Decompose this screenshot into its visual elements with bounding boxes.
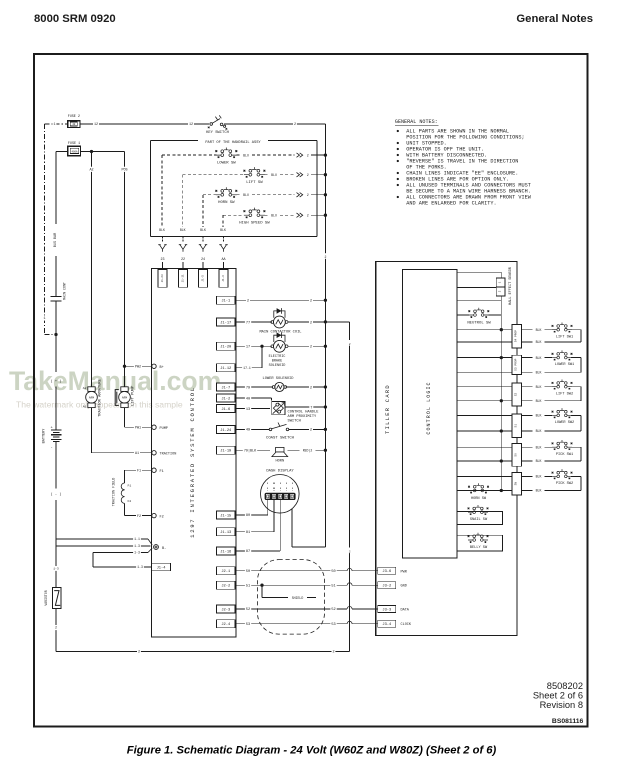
node PW2 junction — [123, 365, 126, 368]
bus wire 2 to dash display — [292, 546, 325, 548]
connector J1-16 — [217, 547, 236, 555]
wire LOWER SW1 loop — [571, 357, 581, 359]
svg-text:BLK: BLK — [200, 228, 206, 232]
connector J1-24 — [217, 425, 236, 433]
wire A2 vertical — [91, 152, 93, 387]
svg-text:BLK: BLK — [536, 399, 542, 403]
connector J3-4 — [378, 620, 396, 627]
svg-text:2: 2 — [332, 651, 334, 655]
svg-text:50: 50 — [246, 570, 250, 574]
svg-text:1-1: 1-1 — [134, 537, 140, 541]
svg-text:ARM: ARM — [89, 396, 94, 399]
wire battery minus — [55, 442, 57, 489]
svg-text:TRACTION ARMATURE: TRACTION ARMATURE — [99, 378, 103, 416]
terminal B+ — [152, 364, 156, 368]
node tiller bus S3 PROP — [500, 356, 503, 359]
svg-text:J1-7: J1-7 — [221, 386, 230, 390]
svg-text:2: 2 — [310, 346, 312, 350]
svg-text:1297 INTEGRATED SYSTEM CONTROL: 1297 INTEGRATED SYSTEM CONTROL — [189, 386, 196, 538]
switch LIFT SW2 — [552, 379, 573, 389]
wire 81 dash to J1-13 — [273, 500, 275, 532]
svg-text:BLU: BLU — [243, 153, 249, 157]
svg-text:-: - — [50, 446, 52, 450]
wire 2 branch right — [325, 321, 349, 323]
svg-text:2: 2 — [324, 255, 326, 259]
fuse F2 — [68, 121, 80, 128]
wire BLK top PICK SW2 — [521, 475, 552, 477]
lead into connector 22 — [182, 262, 184, 270]
svg-text:2: 2 — [307, 213, 309, 217]
lead into connector AA — [223, 262, 225, 270]
lower solenoid L3 — [272, 382, 287, 391]
handrail assy box PART OF THE HANDRAIL ASSY — [151, 140, 199, 142]
harness arrow LOWER SW — [297, 153, 303, 157]
wire BLU from HORN SW — [236, 194, 240, 196]
svg-text:KEY SWITCH: KEY SWITCH — [206, 131, 229, 135]
svg-text:BLK: BLK — [536, 489, 542, 493]
svg-text:TRACTION: TRACTION — [160, 453, 177, 457]
fuse F1 — [68, 146, 81, 156]
svg-text:PW1: PW1 — [135, 426, 141, 430]
svg-text:HORN SW: HORN SW — [471, 497, 487, 501]
node 17 junction — [260, 345, 263, 348]
svg-text:1: 1 — [43, 317, 45, 321]
svg-text:J1-11: J1-11 — [181, 274, 184, 282]
svg-text:79: 79 — [246, 386, 250, 390]
wire 40 — [235, 397, 272, 399]
svg-text:General Notes: General Notes — [516, 13, 593, 25]
wire 52 J2-3 to J3-3 — [235, 608, 347, 610]
svg-text:J1-9: J1-9 — [222, 275, 225, 282]
svg-text:F1: F1 — [160, 470, 164, 474]
connector J2-2 — [217, 581, 236, 589]
svg-text:LOWER SW2: LOWER SW2 — [555, 421, 574, 425]
svg-text:J1-2: J1-2 — [221, 397, 230, 401]
resistor S3 PROP — [512, 355, 521, 374]
switch LIFT SW — [244, 167, 266, 177]
wire F2 field — [124, 503, 126, 515]
svg-text:F1: F1 — [137, 469, 141, 473]
wires control logic to S1 — [457, 414, 512, 416]
switch HORN SW — [215, 187, 237, 197]
wires control logic to S3 PROP — [457, 357, 512, 359]
node bus row LIFT SW — [324, 173, 327, 176]
dash display pin 4 — [285, 483, 287, 486]
harness arrow HIGH SPEED SW — [297, 213, 303, 217]
wire 7 prox to bus — [285, 406, 325, 408]
svg-text:ARM PROXIMITY: ARM PROXIMITY — [288, 415, 318, 419]
svg-text:2: 2 — [55, 626, 57, 630]
wire 2 brake to bus — [288, 345, 325, 347]
node prox bus — [324, 405, 327, 408]
svg-text:12: 12 — [189, 123, 193, 127]
handrail blk wire 3 vertical — [202, 195, 204, 227]
svg-text:40: 40 — [72, 123, 76, 126]
node tiller bus S0 — [500, 459, 503, 462]
svg-text:2: 2 — [307, 153, 309, 157]
handrail blk wire 4 vertical — [222, 215, 224, 227]
wire fuse 1 to POS corner — [80, 151, 125, 153]
svg-text:BLK: BLK — [220, 228, 226, 232]
svg-text:A1: A1 — [83, 405, 87, 409]
svg-text:1-3: 1-3 — [137, 565, 143, 569]
wire RED|2 horn to bus — [288, 449, 326, 451]
terminal B- — [154, 545, 159, 550]
node main contactor bus — [324, 320, 327, 323]
svg-text:22: 22 — [181, 258, 185, 262]
snail switch box — [457, 511, 502, 524]
svg-text:50: 50 — [331, 570, 335, 574]
svg-text:BLK: BLK — [536, 356, 542, 360]
node horn bus — [324, 449, 327, 452]
wire 53 J2-4 to J3-4 — [235, 623, 347, 625]
resistor SN — [512, 472, 521, 495]
wire bus bar to fuse 1 — [56, 151, 68, 153]
wire 1 chain horizontal to fuse 2 — [45, 123, 68, 125]
wire 80 dash to J1-15 — [267, 500, 269, 515]
connector J3-2 — [378, 582, 396, 589]
handrail lead 23 — [162, 237, 164, 244]
dash display connector bar — [265, 493, 296, 500]
svg-text:13: 13 — [246, 408, 250, 412]
wire F1 field — [125, 469, 152, 471]
handrail lead AA — [223, 237, 225, 244]
node coast bus — [324, 428, 327, 431]
svg-text:BS081116: BS081116 — [552, 718, 584, 725]
wire BLK top LIFT SW1 — [521, 329, 552, 331]
svg-text:PICK SW2: PICK SW2 — [556, 482, 573, 486]
belly switch BELLY SW — [468, 533, 489, 543]
svg-text:J1-13: J1-13 — [220, 531, 231, 535]
handrail lead 22 — [182, 237, 184, 244]
svg-text:J1-6: J1-6 — [221, 408, 230, 412]
svg-text:S3 PROP: S3 PROP — [515, 358, 518, 370]
wire plus to battery — [55, 387, 57, 431]
main contactor tips MAIN CONT — [51, 295, 62, 297]
wire BLU from LOWER SW — [236, 154, 240, 156]
dash display gauge — [261, 475, 300, 514]
svg-text:TRACTION FIELD: TRACTION FIELD — [113, 478, 117, 507]
node A2 junction — [90, 150, 93, 153]
wire to varistor — [55, 546, 57, 587]
wires control logic to S2 — [457, 386, 512, 388]
neutral switch NEUTROL SW — [457, 314, 469, 316]
svg-text:CLOCK: CLOCK — [401, 623, 412, 627]
svg-text:51: 51 — [246, 585, 250, 589]
svg-text:POS: POS — [121, 169, 127, 173]
svg-text:A1: A1 — [135, 452, 139, 456]
connector J3-6 — [378, 567, 396, 574]
svg-text:HORN: HORN — [275, 460, 284, 464]
svg-text:PUMP: PUMP — [160, 427, 168, 431]
switch PICK SW2 — [552, 469, 573, 479]
wire LIFT SW1 loop — [571, 329, 581, 331]
wire 2 J1-1 to bus — [235, 299, 325, 301]
svg-text:SN: SN — [515, 482, 518, 486]
handrail lead 24 — [202, 237, 204, 244]
svg-text:2: 2 — [310, 429, 312, 433]
node solenoid bus — [324, 385, 327, 388]
wire LIFT SW2 loop — [571, 386, 581, 388]
svg-text:LOWER SW: LOWER SW — [217, 161, 236, 165]
wire 2 coast to bus — [289, 428, 325, 430]
svg-text:1-3: 1-3 — [53, 567, 59, 571]
wire 1-3 J1-4 loop to B- — [93, 552, 148, 554]
svg-text:52: 52 — [331, 608, 335, 612]
switch LOWER SW2 — [552, 408, 573, 418]
shield dashed capsule — [258, 560, 325, 635]
wire PW1 pump to PUMP terminal — [124, 408, 126, 428]
wire J1-4 loop — [92, 553, 94, 568]
svg-text:Revision 8: Revision 8 — [540, 700, 583, 710]
svg-text:F1: F1 — [128, 484, 132, 488]
svg-text:SHIELD: SHIELD — [292, 596, 304, 600]
svg-text:J1-17: J1-17 — [220, 321, 231, 325]
arrow fork 24 — [199, 245, 207, 252]
wire POS vertical — [124, 152, 126, 387]
svg-text:BLU: BLU — [271, 213, 277, 217]
wires control logic to SN — [457, 475, 512, 477]
connector J1-19 — [217, 446, 236, 454]
svg-text:BELLY SW: BELLY SW — [470, 546, 488, 550]
wire 2 coil to bus — [288, 321, 325, 323]
wire 1-1 battery to B- — [56, 538, 148, 540]
svg-text:CONTROL HANDLE: CONTROL HANDLE — [288, 410, 320, 414]
svg-text:77: 77 — [246, 321, 250, 325]
svg-text:8000 SRM 0920: 8000 SRM 0920 — [34, 13, 116, 25]
wire varistor to bottom bus — [55, 609, 57, 652]
svg-text:B-: B- — [162, 547, 166, 551]
svg-text:J1-24: J1-24 — [220, 429, 232, 433]
wire BLK top LIFT SW2 — [521, 386, 552, 388]
svg-text:HIGH SPEED SW: HIGH SPEED SW — [239, 222, 270, 226]
svg-text:12: 12 — [94, 123, 98, 127]
prox switch control handle arm — [272, 402, 285, 415]
svg-text:J3-2: J3-2 — [382, 585, 391, 589]
svg-text:J1-12: J1-12 — [220, 367, 231, 371]
connector J1-23 — [158, 270, 167, 288]
node tiller bus S1 — [500, 429, 503, 432]
wire PW2 to B+ — [125, 365, 152, 367]
svg-text:F2: F2 — [137, 515, 141, 519]
svg-text:17: 17 — [246, 346, 250, 350]
svg-text:( + ): ( + ) — [51, 379, 62, 384]
svg-text:BLK: BLK — [536, 414, 542, 418]
node shield branch — [260, 584, 263, 587]
node bus row HORN SW — [324, 193, 327, 196]
svg-text:BLK: BLK — [536, 371, 542, 375]
svg-text:24: 24 — [201, 258, 205, 262]
svg-text:J2-1: J2-1 — [221, 570, 231, 574]
connector J1-20 — [217, 342, 236, 350]
svg-text:DATA: DATA — [401, 608, 410, 612]
svg-text:S4 PROP: S4 PROP — [515, 330, 518, 342]
wire PICK SW2 loop — [571, 475, 581, 477]
wire 1 chain to bus bar — [45, 334, 57, 336]
bus wire 2 vertical — [324, 124, 326, 547]
svg-text:MAIN CONT: MAIN CONT — [63, 282, 67, 300]
terminal TRACTION — [152, 451, 156, 455]
wire BLK top LOWER SW1 — [521, 357, 552, 359]
switch LIFT SW1 — [552, 322, 573, 332]
svg-text:53: 53 — [246, 623, 250, 627]
svg-text:79|BLK: 79|BLK — [244, 449, 257, 454]
svg-text:S2: S2 — [515, 393, 518, 397]
svg-text:J2-4: J2-4 — [221, 623, 231, 627]
border frame — [34, 54, 588, 727]
node tiller bus S4 PROP — [500, 328, 503, 331]
svg-text:AND ARE ENLARGED FOR CLARITY.: AND ARE ENLARGED FOR CLARITY. — [406, 201, 496, 207]
svg-text:S0: S0 — [515, 453, 518, 457]
connector J1-4 — [152, 563, 171, 571]
connector J2-4 — [217, 620, 236, 628]
svg-text:J2-2: J2-2 — [221, 585, 230, 589]
svg-text:1-3: 1-3 — [134, 551, 140, 555]
horn switch HORN SW — [468, 483, 489, 493]
svg-text:2: 2 — [349, 343, 351, 346]
svg-text:ELECTRIC: ELECTRIC — [269, 355, 286, 359]
wire 17 J1-20 to brake — [235, 345, 272, 347]
connector J1-11 — [179, 270, 188, 288]
bus wire 2a vertical — [349, 322, 351, 652]
svg-text:LIFT PUMP: LIFT PUMP — [132, 385, 136, 406]
handrail dashed wire to LOWER SW — [162, 154, 216, 156]
svg-text:2: 2 — [138, 651, 140, 655]
node bus row HIGH SPEED SW — [324, 214, 327, 217]
svg-text:2: 2 — [310, 321, 312, 325]
connector J1-12 — [217, 364, 236, 372]
dash display pin 2 — [273, 483, 275, 486]
horn LS1 — [276, 447, 284, 452]
svg-text:17-1: 17-1 — [243, 366, 251, 370]
svg-text:Figure 1. Schematic Diagram -: Figure 1. Schematic Diagram - 24 Volt (W… — [127, 745, 497, 757]
connector J1-1 — [217, 296, 236, 304]
switch PICK SW1 — [552, 440, 573, 450]
wire 13 — [235, 408, 270, 410]
terminal F1 — [152, 468, 156, 472]
terminal PUMP — [152, 425, 156, 429]
traction armature motor M1 — [86, 387, 98, 408]
svg-text:BLK: BLK — [536, 475, 542, 479]
svg-text:BRAKE: BRAKE — [272, 360, 283, 364]
connector J3-3 — [378, 605, 396, 612]
belly switch box — [457, 535, 502, 551]
svg-text:Sheet 2 of 6: Sheet 2 of 6 — [533, 691, 583, 701]
svg-text:J3-6: J3-6 — [382, 570, 391, 574]
svg-text:CONTROL LOGIC: CONTROL LOGIC — [426, 381, 432, 434]
wire below main cont — [55, 301, 57, 372]
resistor S2 — [512, 383, 521, 406]
connector J1-2 — [217, 394, 236, 402]
arrow fork 22 — [179, 245, 187, 252]
svg-text:J3-3: J3-3 — [382, 608, 391, 612]
svg-text:FUSE 1: FUSE 1 — [68, 142, 80, 146]
snail switch SNAIL SW — [468, 505, 489, 515]
svg-text:TILLER CARD: TILLER CARD — [385, 384, 391, 434]
svg-text:40: 40 — [246, 397, 250, 401]
wire 77 J1-17 to coil — [235, 321, 272, 323]
svg-text:2: 2 — [307, 173, 309, 177]
svg-text:LIFT SW2: LIFT SW2 — [556, 392, 573, 396]
wire 51 J2-2 to J3-2 — [235, 584, 347, 586]
svg-text:PART OF THE HANDRAIL ASSY: PART OF THE HANDRAIL ASSY — [205, 141, 261, 145]
svg-text:2: 2 — [247, 300, 249, 304]
svg-text:HALL EFFECT SENSOR: HALL EFFECT SENSOR — [509, 266, 513, 305]
svg-text:NEUTROL SW: NEUTROL SW — [467, 321, 491, 325]
wire 2 solenoid to bus — [286, 386, 326, 388]
svg-text:LIFT SW1: LIFT SW1 — [556, 335, 573, 339]
handrail blk wire 2 vertical — [182, 175, 184, 227]
resistor S1 — [512, 414, 521, 438]
svg-text:BLK: BLK — [536, 429, 542, 433]
connector J1-15 — [217, 511, 236, 519]
switch LOWER SW — [215, 148, 237, 158]
svg-text:BLK: BLK — [536, 459, 542, 463]
svg-text:7: 7 — [310, 406, 312, 410]
svg-text:BLK: BLK — [159, 228, 165, 232]
hall effect sensor B1 — [457, 271, 501, 273]
lead into connector 23 — [162, 262, 164, 270]
svg-text:J1-1: J1-1 — [221, 300, 231, 304]
node bus bar / wire 1 — [54, 333, 57, 336]
svg-text:BUS BAR: BUS BAR — [54, 233, 58, 247]
svg-text:J3-4: J3-4 — [382, 623, 392, 627]
svg-text:SWITCH: SWITCH — [288, 419, 301, 423]
svg-text:2: 2 — [294, 123, 296, 127]
wire 87 dash to J1-16 — [279, 500, 281, 551]
svg-text:2: 2 — [349, 550, 351, 553]
svg-text:2: 2 — [310, 386, 312, 390]
bus bar vertical wire — [55, 152, 57, 297]
node tiller bus S2 — [500, 399, 503, 402]
varistor RV1 — [52, 587, 61, 608]
svg-text:MAIN CONTACTOR COIL: MAIN CONTACTOR COIL — [259, 331, 301, 335]
svg-text:BLK: BLK — [536, 328, 542, 332]
node brake bus — [324, 345, 327, 348]
svg-text:PWR: PWR — [401, 570, 408, 574]
svg-text:BLK: BLK — [536, 385, 542, 389]
wire PICK SW1 loop — [571, 446, 581, 448]
svg-text:RED|2: RED|2 — [303, 449, 313, 453]
svg-text:J2-3: J2-3 — [221, 608, 230, 612]
svg-text:FUSE 2: FUSE 2 — [68, 115, 80, 119]
connector J1-9 — [219, 270, 228, 288]
terminal F2 — [152, 513, 156, 517]
svg-text:23: 23 — [160, 258, 164, 262]
key switch S1 — [210, 123, 213, 126]
wires control logic to S4 PROP — [457, 329, 512, 331]
dash display pin 1 — [267, 483, 269, 486]
wire 2 key switch to bus — [224, 123, 325, 125]
wire BLK top LOWER SW2 — [521, 414, 552, 416]
svg-text:PW2: PW2 — [135, 366, 141, 370]
svg-text:LOWER SOLENOID: LOWER SOLENOID — [263, 377, 295, 381]
svg-text:51: 51 — [331, 585, 335, 589]
resistor S0 — [512, 443, 521, 466]
arrow fork AA — [219, 245, 227, 252]
svg-text:BLK: BLK — [536, 445, 542, 449]
wire 49 — [235, 428, 269, 430]
wire 50 J2-1 to J3-6 — [235, 570, 347, 572]
wire BLU from LIFT SW — [264, 174, 268, 176]
svg-text:COAST SWITCH: COAST SWITCH — [266, 436, 295, 440]
svg-text:LOWER SW1: LOWER SW1 — [555, 363, 574, 367]
1297 integrated system control box — [152, 269, 237, 638]
connector J2-3 — [217, 605, 236, 613]
svg-text:A2: A2 — [83, 386, 87, 390]
svg-text:J1-19: J1-19 — [220, 450, 231, 454]
switch HIGH SPEED SW — [244, 208, 266, 218]
